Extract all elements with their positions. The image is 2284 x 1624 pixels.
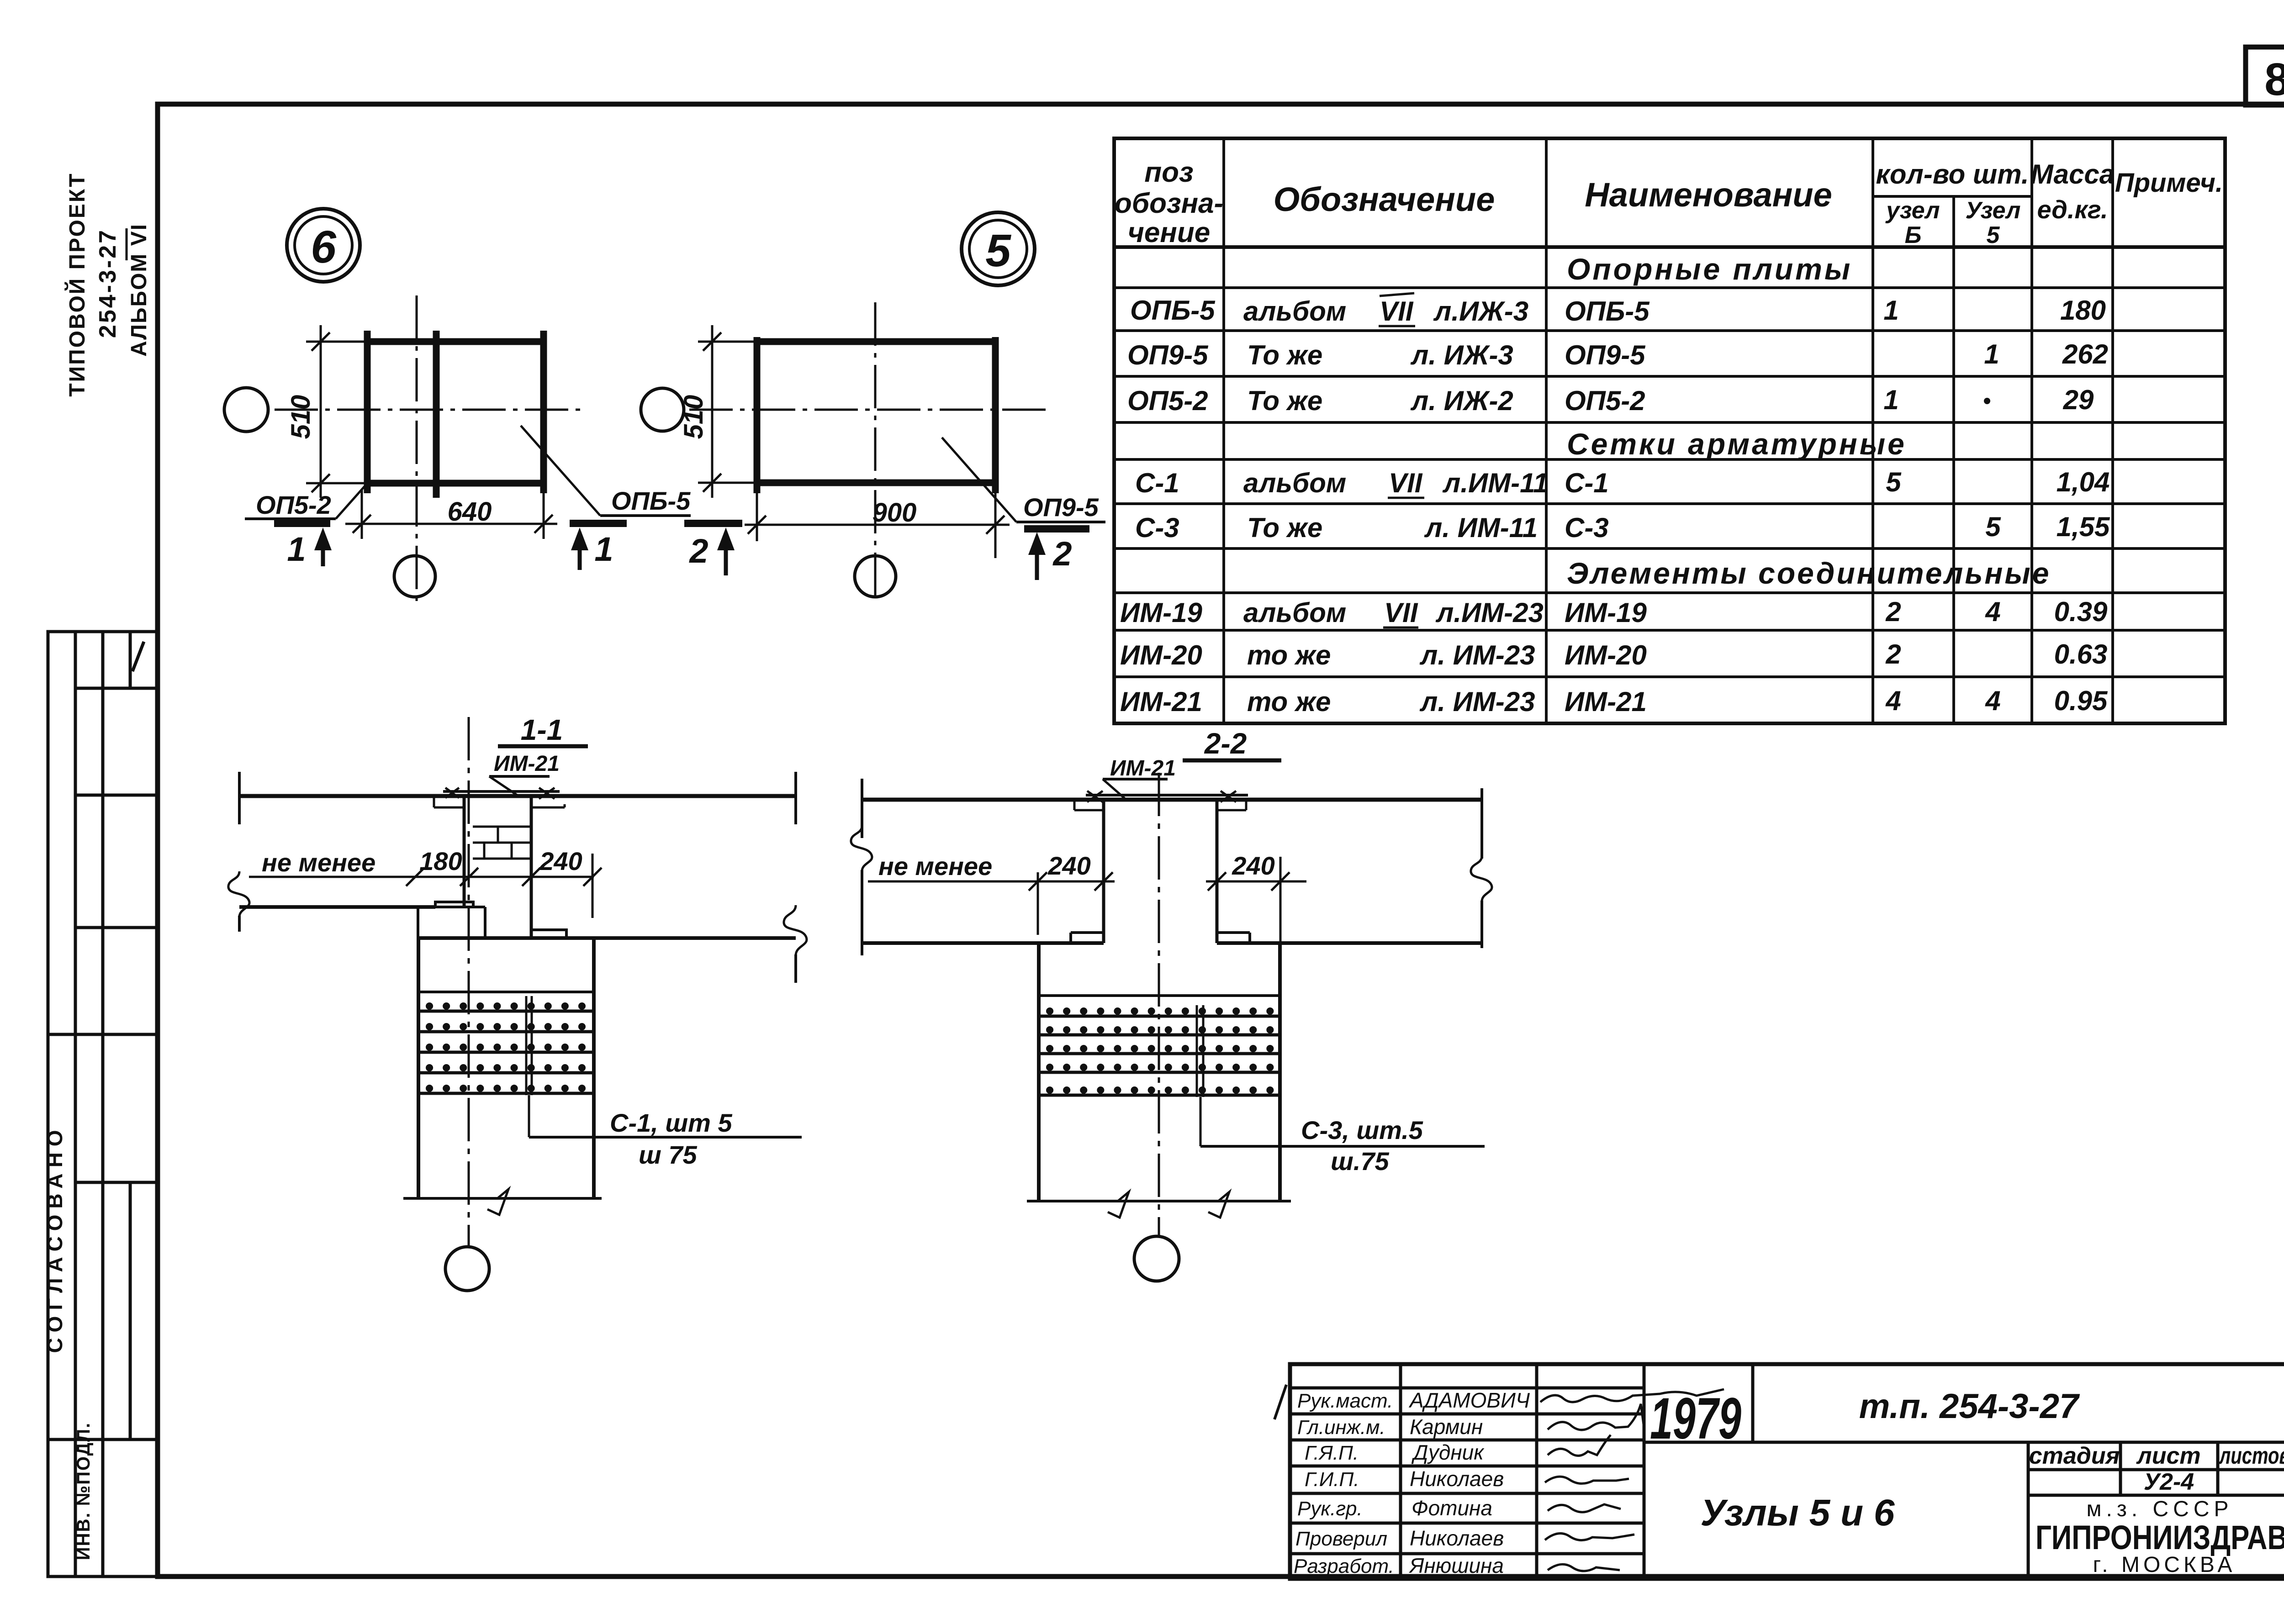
svg-text:1,04: 1,04 [2057,467,2110,497]
svg-text:альбом: альбом [1243,597,1346,628]
plan node 6 [224,209,691,603]
weld mark left [445,788,459,798]
slab bottom left [862,941,1104,945]
slab top line [862,798,1482,802]
bottom circle [445,1247,489,1291]
section 1-1 [228,713,807,1291]
right end break [1480,788,1483,859]
svg-text:Фотина: Фотина [1412,1496,1492,1520]
svg-text:Разработ.: Разработ. [1294,1555,1394,1577]
left stamp strip [48,632,158,1577]
dim 640 [345,490,557,539]
plate seat step left [1074,800,1104,810]
svg-text:ИМ-20: ИМ-20 [1120,640,1202,670]
svg-text:обозна-: обозна- [1115,188,1223,219]
svg-text:С-1: С-1 [1135,468,1179,498]
svg-text:узел: узел [1885,197,1940,224]
plate ОП9-5 outline [754,337,998,493]
section mark 2 right [1024,529,1089,580]
title rows labels [1294,1390,1394,1577]
plate seat step right [1217,800,1246,810]
small tick left of block [1274,1385,1286,1419]
svg-text:29: 29 [2063,385,2094,415]
svg-text:1979: 1979 [1650,1386,1741,1451]
svg-text:Обозначение: Обозначение [1274,180,1495,218]
svg-text:ш.75: ш.75 [1331,1147,1389,1176]
svg-text:510: 510 [679,395,708,439]
svg-text:ИМ-19: ИМ-19 [1120,597,1202,628]
svg-text:1: 1 [287,530,306,568]
svg-text:лист: лист [2136,1443,2200,1469]
svg-text:С-3: С-3 [1565,512,1609,543]
svg-text:л. ИЖ-2: л. ИЖ-2 [1410,385,1513,416]
plate seat step right [531,804,565,807]
vertical center line [874,302,877,603]
svg-text:0.63: 0.63 [2054,639,2108,670]
svg-text:ОПБ-5: ОПБ-5 [611,486,691,515]
brick hatch [473,827,530,859]
label С-1 шт 5 / ш75 [529,1136,802,1139]
svg-text:То же: То же [1247,385,1322,416]
svg-text:То же: То же [1247,340,1322,370]
svg-text:ед.кг.: ед.кг. [2037,195,2108,224]
svg-text:не менее: не менее [262,848,375,877]
vertical center line [416,295,418,603]
svg-text:5: 5 [985,225,1011,276]
upper wall faces [1102,800,1105,943]
section mark 2 left [684,523,742,575]
weld mark right [539,788,555,799]
svg-text:254-3-27: 254-3-27 [95,228,121,338]
lower wall [1027,943,1291,1201]
dim 900 [745,493,1010,558]
svg-text:л. ИМ-11: л. ИМ-11 [1424,512,1538,543]
mesh extent mark [526,996,532,1095]
svg-text:чение: чение [1128,217,1210,248]
left slab bottom [239,905,435,909]
svg-text:С-1: С-1 [1565,468,1609,498]
connection plate ИМ-21 [443,790,560,793]
grid bubble bottom [855,556,896,597]
svg-text:Наименование: Наименование [1585,176,1832,214]
support ledges [1071,933,1104,943]
svg-text:ИМ-21: ИМ-21 [1565,686,1647,717]
svg-text:180: 180 [2060,295,2106,326]
signatures [1540,1389,1724,1571]
svg-text:VII: VII [1389,468,1423,498]
table header texts [1115,157,2223,248]
left end break [861,779,863,838]
grid bubble left [224,388,268,432]
svg-text:ТИПОВОЙ ПРОЕКТ: ТИПОВОЙ ПРОЕКТ [64,172,90,396]
svg-text:1: 1 [1984,339,1999,369]
svg-text:2-2: 2-2 [1204,727,1247,760]
horizontal center line [275,409,587,411]
dim не менее 240 240 [868,857,1306,955]
svg-text:ГИПРОНИИЗДРАВ: ГИПРОНИИЗДРАВ [2036,1519,2284,1556]
corbel step [418,902,485,938]
svg-text:8: 8 [2264,54,2284,105]
svg-text:поз: поз [1144,157,1193,188]
svg-text:АЛЬБОМ VI: АЛЬБОМ VI [127,223,151,357]
svg-text:Г.И.П.: Г.И.П. [1305,1468,1359,1491]
weld mark right [1221,791,1236,802]
svg-text:Г.Я.П.: Г.Я.П. [1305,1442,1359,1464]
svg-text:ИМ-19: ИМ-19 [1565,597,1647,628]
plate ОПБ-5 outline [365,331,546,498]
svg-text:4: 4 [1885,685,1901,716]
label С-3 шт.5 / ш.75 [1200,1145,1485,1148]
svg-text:900: 900 [872,498,917,527]
svg-text:1: 1 [594,530,613,568]
svg-text:2: 2 [1885,596,1901,627]
svg-text:0.39: 0.39 [2054,596,2108,627]
svg-text:ИМ-20: ИМ-20 [1565,640,1647,670]
right slab support pad [531,930,566,938]
dim 510 [306,325,367,498]
svg-text:Кармин: Кармин [1410,1415,1483,1439]
svg-text:Узел: Узел [1966,197,2021,224]
svg-text:2: 2 [1052,535,1072,573]
svg-text:кол-во шт.: кол-во шт. [1876,159,2029,190]
svg-text:То же: То же [1247,512,1322,543]
svg-text:ОП9-5: ОП9-5 [1023,493,1099,522]
section mark 1 right [570,523,627,570]
svg-text:510: 510 [286,395,316,439]
svg-text:т.п. 254-3-27: т.п. 254-3-27 [1859,1387,2080,1426]
svg-text:С-1, шт 5: С-1, шт 5 [610,1108,732,1137]
svg-text:4: 4 [1985,596,2000,627]
center line [468,717,470,1246]
svg-text:л. ИЖ-3: л. ИЖ-3 [1410,340,1513,370]
right end break [794,772,797,824]
svg-text:240: 240 [1232,851,1274,880]
svg-text:С-3: С-3 [1135,512,1179,543]
svg-text:262: 262 [2062,339,2108,369]
svg-text:АДАМОВИЧ: АДАМОВИЧ [1408,1388,1530,1412]
svg-text:VII: VII [1380,296,1414,327]
svg-text:Проверил: Проверил [1295,1528,1387,1550]
svg-text:Опорные плиты: Опорные плиты [1567,252,1852,286]
svg-text:Масса: Масса [2030,159,2115,190]
svg-text:ОПБ-5: ОПБ-5 [1130,295,1216,326]
svg-text:5: 5 [1987,222,2000,248]
svg-text:Рук.маст.: Рук.маст. [1297,1390,1393,1412]
svg-text:1-1: 1-1 [521,713,563,746]
svg-text:ИМ-21: ИМ-21 [1110,756,1176,780]
svg-text:0.95: 0.95 [2054,685,2108,716]
svg-text:альбом: альбом [1243,296,1346,327]
svg-text:5: 5 [1985,511,2001,542]
svg-text:альбом: альбом [1243,468,1346,498]
svg-text:л. ИМ-23: л. ИМ-23 [1419,686,1535,717]
right slab bottom / wall top [418,936,796,940]
svg-text:л.ИЖ-3: л.ИЖ-3 [1433,296,1528,327]
svg-text:не менее: не менее [878,852,992,881]
svg-text:VII: VII [1384,597,1418,628]
grid bubble left [641,388,684,431]
slab bottom right [1217,941,1482,945]
left slab end face [463,796,466,907]
mesh rows [1039,1016,1280,1095]
svg-text:м.з. СССР: м.з. СССР [2086,1497,2233,1521]
svg-text:ОПБ-5: ОПБ-5 [1565,296,1650,327]
svg-text:г. МОСКВА: г. МОСКВА [2093,1553,2236,1577]
svg-text:Элементы соединительные: Элементы соединительные [1567,556,2051,590]
svg-text:Николаев: Николаев [1410,1526,1504,1550]
svg-text:640: 640 [448,497,492,527]
grid bubble 5 [962,212,1035,285]
svg-text:Узлы 5 и 6: Узлы 5 и 6 [1701,1492,1895,1534]
svg-text:240: 240 [539,847,582,875]
lower wall [403,938,602,1198]
svg-text:180: 180 [419,847,462,875]
names [1408,1388,1530,1577]
svg-text:1: 1 [1883,295,1898,326]
svg-text:ОП5-2: ОП5-2 [1565,385,1645,416]
svg-text:ИМ-21: ИМ-21 [1120,686,1202,717]
svg-text:Б: Б [1905,222,1922,248]
left end break [238,772,241,824]
svg-text:4: 4 [1985,685,2000,716]
svg-text:ОП9-5: ОП9-5 [1127,340,1209,370]
svg-text:ОП9-5: ОП9-5 [1565,340,1646,370]
right slab end face [530,796,533,938]
bottom circle [1134,1236,1179,1281]
grid bubble bottom [394,556,435,597]
dim не менее 180 240 [249,854,602,918]
svg-text:ИНВ. №ПОДЛ.: ИНВ. №ПОДЛ. [74,1422,94,1560]
svg-text:стадия: стадия [2029,1443,2120,1469]
svg-text:Гл.инж.м.: Гл.инж.м. [1297,1416,1385,1439]
svg-text:ш 75: ш 75 [639,1140,697,1169]
svg-text:6: 6 [311,221,337,273]
svg-text:то же: то же [1247,640,1331,670]
center line [1158,773,1160,1237]
svg-text:1,55: 1,55 [2057,511,2110,542]
svg-text:1: 1 [1883,385,1898,415]
svg-text:листов: листов [2218,1443,2284,1469]
svg-text:У2-4: У2-4 [2144,1469,2194,1495]
svg-text:ОП5-2: ОП5-2 [1127,385,1208,416]
svg-text:ОП5-2: ОП5-2 [256,490,331,519]
dim 510 [698,325,757,498]
svg-text:Рук.гр.: Рук.гр. [1297,1497,1363,1520]
mesh rows [418,1011,594,1093]
svg-text:С-3, шт.5: С-3, шт.5 [1301,1116,1423,1144]
title block [1274,1364,2284,1579]
svg-text:Сетки арматурные: Сетки арматурные [1567,427,1907,461]
svg-text:л. ИМ-23: л. ИМ-23 [1419,640,1535,670]
svg-text:Примеч.: Примеч. [2115,168,2223,198]
spec table grid [1114,138,2225,723]
svg-text:то же: то же [1247,686,1331,717]
section mark 1 left [274,523,332,568]
svg-text:2: 2 [688,532,708,570]
plan node 5 [641,212,1105,603]
horizontal center line [689,409,1046,411]
table body texts [1120,252,2110,717]
svg-text:Николаев: Николаев [1410,1467,1504,1491]
plate seat step left [434,796,464,807]
mesh extent mark [1197,1005,1203,1097]
bottom break zigzag [487,1189,508,1215]
mesh zone top [418,991,594,993]
svg-text:л.ИМ-23: л.ИМ-23 [1435,597,1544,628]
weld mark left [1087,791,1103,802]
svg-text:ИМ-21: ИМ-21 [494,752,560,776]
svg-text:240: 240 [1047,851,1090,880]
sheet number box [2246,47,2284,105]
svg-text:5: 5 [1886,467,1902,497]
connection plate ИМ-21 [1086,794,1248,796]
svg-text:Янюшина: Янюшина [1408,1554,1504,1577]
svg-text:л.ИМ-11: л.ИМ-11 [1442,468,1548,498]
svg-text:2: 2 [1885,639,1901,670]
slab top line [239,794,796,798]
grid bubble 6 [287,209,360,282]
стадия лист листов [2029,1443,2284,1495]
bottom break zigzags [1108,1192,1129,1218]
mesh zone top [1039,994,1280,997]
svg-text:Дудник: Дудник [1411,1440,1485,1464]
svg-text:СОГЛАСОВАНО: СОГЛАСОВАНО [43,1124,67,1353]
section 2-2 [851,727,1492,1281]
